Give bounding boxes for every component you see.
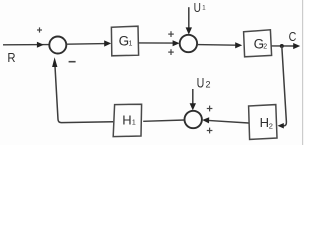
arrowhead U2 into S3: [190, 103, 196, 110]
wire H2 to summing junction S3: [208, 120, 249, 123]
plus sign lower at S3: [207, 128, 213, 134]
svg-text:H: H: [122, 112, 131, 127]
wire S1 to G1: [66, 43, 105, 46]
svg-text:H: H: [260, 115, 269, 130]
arrowhead into H2: [278, 123, 284, 129]
svg-text:2: 2: [269, 121, 273, 130]
svg-text:1: 1: [202, 5, 206, 11]
block G1: [111, 26, 138, 56]
svg-text:U: U: [197, 75, 205, 91]
arrowhead into S1: [37, 42, 44, 48]
wire S2 to G2: [197, 44, 236, 47]
wire R input to summing junction S1: [3, 44, 49, 46]
block H1: [113, 104, 141, 136]
svg-text:C: C: [289, 29, 297, 44]
arrowhead into G2: [235, 42, 242, 48]
plus sign upper at S2: [168, 31, 174, 37]
wire G1 to summing junction S2: [139, 42, 174, 44]
plus sign at S1 input: [37, 27, 42, 32]
arrowhead into G1: [104, 40, 111, 46]
block G2: [244, 30, 272, 57]
wire S3 to H1: [143, 120, 184, 121]
arrowhead at C: [293, 43, 300, 49]
svg-text:U: U: [194, 0, 201, 15]
scan edge artifact right border: [302, 0, 304, 145]
wire H1 to feedback corner: [55, 65, 113, 123]
svg-text:R: R: [7, 50, 15, 65]
block H2: [249, 105, 277, 140]
summing junction S1: [49, 37, 66, 54]
arrowhead feedback into S1: [52, 57, 57, 67]
svg-text:1: 1: [129, 40, 133, 47]
plus sign lower at S2: [168, 49, 174, 55]
svg-text:2: 2: [206, 79, 211, 89]
wire U1 into S2: [188, 7, 190, 29]
summing junction S2: [180, 35, 197, 52]
summing junction S3: [185, 111, 202, 128]
arrowhead U1 into S2: [186, 27, 192, 34]
wire U2 into S3: [192, 89, 194, 105]
junction dot takeoff point: [280, 44, 284, 48]
arrowhead into S2: [173, 40, 180, 46]
wire feedback takeoff down to H2: [282, 46, 287, 126]
arrowhead into S3: [202, 117, 209, 123]
plus sign upper at S3: [207, 106, 213, 112]
minus sign at S1 feedback input: [69, 61, 76, 63]
svg-text:1: 1: [132, 120, 136, 127]
svg-text:2: 2: [263, 43, 267, 50]
wire G2 to output C: [272, 45, 295, 47]
